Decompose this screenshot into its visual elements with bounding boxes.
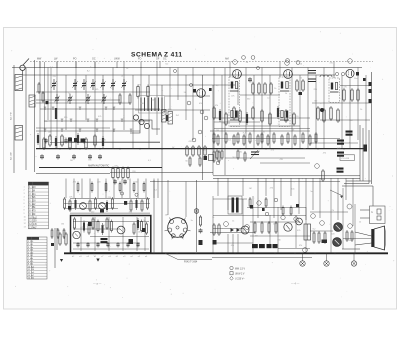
resistor R22 — [192, 145, 194, 157]
svg-text:7 68k: 7 68k — [28, 258, 33, 260]
wire segment — [210, 130, 310, 132]
wire drop lower — [290, 178, 292, 196]
wire segment — [240, 94, 280, 96]
resistor R108 — [213, 223, 215, 236]
svg-text:1M: 1M — [61, 223, 64, 225]
loudspeaker LS1 — [371, 226, 385, 250]
board capacitor — [88, 222, 92, 226]
svg-text:OF: OF — [156, 58, 160, 61]
resistor R48 — [252, 106, 254, 120]
svg-text:9 33k: 9 33k — [28, 264, 33, 266]
wire drop — [153, 180, 155, 253]
wire drop — [307, 68, 309, 149]
IF transformer T3 — [329, 78, 340, 103]
junction — [139, 148, 141, 150]
wire audio mesh v — [252, 196, 254, 253]
wire board mesh h — [73, 242, 140, 244]
terminal 12 — [315, 164, 320, 169]
output transistor T9 — [333, 238, 342, 247]
wire board feed — [97, 179, 99, 199]
capacitor C32 — [116, 242, 119, 247]
wire audio mesh h — [213, 198, 247, 200]
junction — [254, 252, 256, 254]
output terminal block — [369, 99, 372, 103]
resistor R45 — [233, 106, 235, 120]
wire right vertical — [371, 72, 373, 184]
wire to speaker — [355, 232, 372, 236]
resistor R26 — [199, 156, 201, 167]
svg-text:1k: 1k — [359, 222, 361, 224]
wire drop — [44, 62, 46, 148]
resistor R87 — [77, 182, 79, 193]
resistor R72 — [218, 150, 220, 163]
resistor R32 — [270, 82, 272, 95]
capacitor C21 — [123, 179, 127, 184]
wire drop — [245, 68, 247, 149]
mains transformer TR1 — [228, 196, 242, 214]
svg-text:1k: 1k — [121, 76, 123, 78]
resistor R51 — [277, 106, 279, 119]
padding capacitor — [46, 101, 49, 104]
junction — [213, 148, 215, 150]
trimmer capacitor C1 — [51, 79, 56, 90]
wire band drop — [116, 62, 118, 69]
resistor R84 — [136, 198, 138, 210]
capacitor C31 — [106, 242, 109, 247]
dial lamp capacitor row — [68, 138, 85, 143]
transistor T1 — [80, 203, 87, 210]
resistor R89 — [105, 182, 107, 193]
wire drop lower — [330, 178, 332, 200]
svg-text:5n: 5n — [191, 220, 193, 222]
terminal — [224, 222, 229, 227]
resistor R95 — [88, 222, 90, 235]
tube V4 — [346, 69, 354, 77]
wire drop lower — [305, 178, 307, 220]
svg-text:10 8µ2: 10 8µ2 — [29, 217, 37, 219]
wire right loop v3 — [359, 125, 361, 181]
resistor R91 — [133, 182, 135, 193]
tube pin terminal — [348, 59, 353, 64]
resistor R63 — [267, 134, 269, 146]
transistor T5 — [241, 226, 249, 234]
wire segment — [36, 91, 150, 93]
svg-text:1k: 1k — [360, 109, 362, 111]
antenna coil L1 — [15, 75, 23, 91]
wire drop — [221, 75, 223, 148]
junction — [234, 252, 236, 254]
wire drop lower — [257, 178, 259, 218]
resistor R96 — [92, 217, 94, 230]
wire rect drop — [227, 234, 229, 253]
wire to output box — [372, 186, 374, 206]
resistor R37 — [357, 88, 359, 102]
svg-text:UKW 2 V: UKW 2 V — [235, 274, 245, 276]
wire drop lower — [265, 178, 267, 196]
capacitor C20 — [113, 179, 117, 184]
svg-text:Z 411: Z 411 — [164, 52, 183, 59]
resistor R13 — [77, 133, 79, 145]
svg-text:10n: 10n — [135, 182, 138, 184]
wire board mesh v — [80, 217, 82, 251]
wire audio mesh h — [247, 207, 306, 209]
wire left rail — [13, 65, 15, 173]
resistor R119 — [318, 231, 320, 244]
svg-text:Ant. AM: Ant. AM — [10, 152, 13, 160]
resistor R53 — [293, 112, 295, 126]
resistor R50 — [269, 112, 271, 126]
wire segment — [310, 142, 358, 144]
wiring point — [204, 116, 208, 120]
wire board mesh v — [122, 217, 124, 251]
svg-text:MW 1,5 V: MW 1,5 V — [235, 268, 246, 270]
resistor R77 — [69, 199, 71, 212]
wire det h2 — [312, 102, 371, 104]
trimmer capacitor C5 — [100, 79, 105, 90]
svg-text:47k: 47k — [231, 245, 234, 247]
resistor R2 — [42, 91, 44, 103]
board capacitor — [124, 201, 127, 205]
wave-band switch dashed line — [30, 61, 373, 63]
test point — [120, 192, 123, 195]
resistor R42 — [213, 106, 215, 120]
parts table 2 values — [28, 241, 34, 279]
wire drop — [123, 62, 125, 131]
wire audio mesh v — [269, 215, 271, 244]
resistor R57 — [233, 134, 235, 146]
wire board feed — [129, 179, 131, 199]
capacitor C33 — [126, 242, 129, 247]
resistor R27 — [216, 149, 218, 160]
connector capacitor — [364, 145, 368, 152]
resistor R23 — [198, 145, 200, 157]
dial terminal — [286, 59, 290, 63]
wire audio row — [210, 232, 255, 234]
junction — [195, 252, 197, 254]
junction — [153, 252, 155, 254]
wire drop — [56, 62, 58, 149]
wire board mesh v — [136, 217, 138, 251]
svg-text:12 1n5: 12 1n5 — [29, 224, 37, 226]
resistor R30 — [258, 82, 260, 95]
wire board mesh v — [144, 217, 146, 251]
IF transformer T2 secondary coil — [280, 111, 289, 121]
svg-text:3 10n: 3 10n — [29, 194, 36, 196]
svg-text:Ant. FM: Ant. FM — [10, 112, 13, 120]
chassis terminal — [351, 261, 356, 266]
wire socket feed — [167, 180, 169, 215]
wire switch row — [36, 99, 120, 101]
wire drop — [341, 75, 343, 148]
resistor R52 — [285, 109, 287, 123]
wire rect drop — [237, 234, 239, 253]
resistor R113 — [290, 206, 292, 217]
wire drop — [333, 62, 335, 79]
capacitor C19 — [82, 138, 85, 143]
resistor R117 — [275, 221, 277, 234]
wire board mesh v — [108, 217, 110, 251]
wire drop lower — [352, 178, 354, 226]
band switch contacts — [44, 107, 133, 132]
grid capacitor — [209, 88, 212, 91]
resistor R25 — [189, 156, 191, 167]
coil form L8 — [168, 112, 173, 125]
table row numbers — [24, 186, 27, 228]
legend measured voltages — [230, 266, 246, 280]
svg-text:5 100: 5 100 — [28, 252, 33, 254]
resistor R114 — [254, 221, 256, 234]
test point — [190, 84, 193, 87]
resistor R1 — [38, 82, 40, 94]
svg-text:1M: 1M — [273, 224, 276, 226]
svg-text:1k: 1k — [126, 68, 128, 70]
wire drop — [237, 82, 239, 105]
svg-text:5 100: 5 100 — [29, 201, 36, 203]
resistor R41 — [337, 108, 339, 123]
bypass capacitor — [320, 108, 324, 112]
IF transformer T1 primary coil — [230, 82, 239, 92]
wiring point — [200, 110, 204, 114]
tube V1 — [197, 89, 206, 98]
wire top bus A — [12, 67, 362, 69]
trimmer capacitor C7 — [121, 79, 126, 90]
wire drop lower — [273, 178, 275, 218]
resistor R38 — [317, 106, 319, 121]
test point — [174, 70, 177, 73]
resistor R109 — [218, 223, 220, 236]
wire segment — [165, 95, 210, 97]
svg-text:1k: 1k — [263, 132, 265, 134]
wire drop — [39, 62, 41, 149]
resistor R4 — [147, 85, 149, 99]
junction — [43, 148, 45, 150]
parts table 1 — [28, 182, 48, 229]
resistor R49 — [261, 109, 263, 123]
transistor T7 — [296, 218, 303, 225]
terminal — [281, 215, 285, 219]
resistor R21 — [186, 145, 188, 157]
wire band drop — [159, 62, 161, 69]
wire segment — [214, 128, 310, 130]
electrolytic capacitor C25 — [337, 168, 344, 173]
svg-text:1k: 1k — [212, 217, 214, 219]
wire to speaker 2 — [355, 243, 372, 245]
svg-text:F043 T-3-B4: F043 T-3-B4 — [184, 260, 198, 263]
wire board feed — [121, 179, 123, 199]
svg-text:47k: 47k — [215, 105, 218, 107]
resistor R92 — [143, 182, 145, 193]
terminal — [245, 225, 250, 230]
wire board feed — [73, 179, 75, 199]
svg-text:FO: FO — [138, 58, 141, 61]
resistor R70 — [315, 132, 317, 144]
svg-text:1M: 1M — [102, 225, 105, 227]
resistor R tone — [322, 169, 324, 182]
mains capacitor — [213, 240, 217, 245]
detector diode 2 — [363, 78, 366, 81]
wire drop — [177, 68, 179, 101]
wire segment — [36, 127, 110, 129]
detector diode — [356, 72, 359, 76]
coupling capacitor — [296, 204, 299, 207]
resistor R85 — [141, 199, 143, 212]
wire drop — [299, 75, 301, 148]
wire segment — [36, 102, 130, 104]
wire board row mid 2 — [64, 208, 118, 210]
wire board mesh h — [73, 248, 149, 250]
output transistor T8 — [334, 223, 343, 232]
wire drop — [213, 68, 215, 149]
coupling coil L2a — [29, 95, 35, 107]
svg-text:5n: 5n — [68, 93, 70, 95]
resistor R35 — [343, 88, 345, 102]
wire rect drop — [232, 234, 234, 253]
wire to box — [360, 209, 370, 211]
wire drop lower — [337, 178, 339, 220]
wire switch row — [44, 120, 150, 122]
output terminal block — [369, 89, 372, 93]
trimmer capacitor C9 — [67, 94, 72, 104]
decoupling capacitor — [299, 92, 303, 95]
wire det h1 — [340, 85, 371, 87]
capacitor C15 — [88, 154, 92, 159]
svg-text:11 150: 11 150 — [29, 221, 37, 223]
svg-text:47k: 47k — [323, 153, 326, 155]
wire drop — [323, 68, 325, 149]
wire output mesh h — [343, 238, 371, 240]
wire centre vertical 2 — [196, 180, 198, 252]
svg-text:2 1M: 2 1M — [29, 191, 35, 193]
wire drop — [140, 68, 142, 121]
wire AVC bus — [36, 148, 365, 150]
resistor R80 — [95, 197, 97, 210]
wire right loop v2 — [362, 128, 364, 181]
wiring point — [192, 138, 196, 142]
wiring point — [187, 101, 191, 105]
wire AM bus left — [39, 167, 162, 169]
svg-text:11 150: 11 150 — [28, 269, 34, 271]
wire right loop v1 — [368, 130, 370, 184]
tube pin terminal — [285, 61, 290, 66]
wire board feed — [157, 179, 159, 199]
resistor R106 — [65, 232, 67, 246]
resistor R20 — [127, 167, 129, 180]
resistor R120 — [324, 231, 326, 244]
wire mid h4 — [213, 177, 360, 179]
wire centre vertical — [161, 85, 163, 253]
wire drop — [279, 62, 281, 78]
coil form L7 — [162, 110, 167, 123]
wire board row top — [70, 198, 150, 200]
wire audio mesh v — [212, 196, 214, 253]
resistor R smoothing — [199, 215, 201, 227]
wire drop lower — [242, 178, 244, 196]
hum adjuster box — [340, 155, 355, 161]
wire drop — [50, 68, 52, 140]
ground symbol — [96, 259, 99, 262]
wire board mesh h — [73, 221, 149, 223]
wire board row bottom — [70, 212, 150, 214]
svg-text:1 220: 1 220 — [29, 187, 36, 189]
wire band drop — [94, 62, 96, 69]
wire segment — [230, 125, 300, 127]
resistor R105 — [59, 232, 61, 246]
board capacitor — [68, 206, 71, 209]
transistor T4 — [117, 226, 125, 234]
capacitor C28 — [76, 242, 79, 247]
resistor R115 — [261, 221, 263, 234]
wire top bus B — [23, 74, 335, 76]
wire output mesh v — [354, 204, 356, 253]
wire board feed — [105, 179, 107, 199]
wire drop lower — [319, 178, 321, 218]
wire drop — [112, 68, 114, 149]
board capacitor — [142, 228, 146, 232]
resistor R31 — [264, 82, 266, 95]
wire switch row — [36, 130, 140, 132]
chassis terminal — [300, 261, 305, 266]
resistor R67 — [294, 134, 296, 146]
junction — [214, 252, 216, 254]
wire below bus — [212, 256, 312, 258]
wire mid h3 — [213, 175, 360, 177]
resistor R71 — [213, 150, 215, 163]
resistor R33 — [296, 79, 298, 92]
resistor R60 — [249, 132, 251, 144]
svg-text:10n: 10n — [85, 149, 88, 151]
svg-text:10n: 10n — [221, 123, 224, 125]
junction — [294, 252, 296, 254]
driver transformer TR2 — [304, 224, 311, 240]
capacitor C17 — [44, 138, 47, 143]
svg-text:U 220 V~: U 220 V~ — [235, 279, 245, 281]
board pin labels — [72, 256, 148, 258]
resistor R3 — [137, 85, 139, 99]
parts table 1 values — [29, 187, 37, 229]
wire mid h5 — [150, 181, 340, 183]
svg-text:1k: 1k — [117, 244, 119, 246]
wire drop — [365, 75, 367, 145]
oscillator coil L5 — [144, 123, 149, 128]
svg-text:47k: 47k — [138, 85, 141, 87]
resistor R90 — [119, 182, 121, 193]
svg-text:— 4 —: — 4 — — [291, 282, 300, 286]
svg-text:4 5k6: 4 5k6 — [28, 250, 33, 252]
wire drop — [75, 62, 77, 149]
terminal — [311, 214, 316, 219]
terminal — [257, 201, 261, 205]
resistor R62 — [261, 132, 263, 144]
svg-text:AM: AM — [225, 58, 229, 61]
coupling capacitor — [262, 208, 265, 211]
output connector box — [370, 206, 386, 224]
resistor R79 — [89, 199, 91, 212]
wire audio mesh v — [277, 207, 279, 253]
wire centre vertical 3 — [202, 75, 204, 180]
wire below bus h2 — [260, 162, 310, 164]
dial pointer arrow — [330, 190, 343, 198]
wire board mesh h — [90, 236, 149, 238]
svg-text:1M: 1M — [303, 148, 306, 150]
chassis terminal — [324, 261, 329, 266]
antenna coil L2 — [15, 126, 23, 141]
terminal — [348, 224, 353, 229]
resistor R24 — [204, 145, 206, 157]
trimmer capacitor C10 — [85, 94, 90, 104]
wire mains lead — [165, 253, 212, 259]
wire drop — [229, 62, 231, 78]
svg-text:1k: 1k — [172, 147, 174, 149]
